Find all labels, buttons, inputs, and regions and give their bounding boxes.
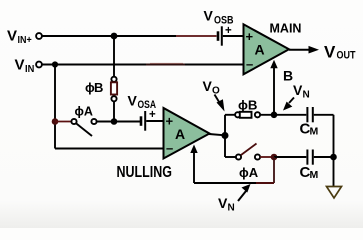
svg-text:V: V (203, 78, 213, 94)
svg-text:ϕB: ϕB (238, 99, 258, 113)
svg-text:V: V (7, 28, 17, 45)
svg-text:M: M (310, 126, 319, 138)
wire junction to cap CM bottom (274, 156, 306, 158)
wire VIN+ to battery VOSB (43, 35, 177, 37)
battery VOSB (218, 26, 244, 45)
svg-text:V: V (293, 82, 303, 98)
svg-text:V: V (15, 57, 25, 74)
wire VIN dark tint segment (146, 64, 185, 66)
svg-text:N: N (303, 90, 310, 101)
svg-text:B: B (283, 68, 293, 84)
wire to phiB switch mid (225, 114, 235, 116)
svg-text:OUT: OUT (337, 50, 356, 62)
node junction dark red bottom (271, 154, 278, 161)
wire nulling minus input (55, 148, 164, 150)
wire dark red to switch (55, 121, 72, 123)
arrow VN bottom pointer (238, 184, 251, 201)
node nulling output junction (222, 132, 229, 139)
node junction dark red left (52, 118, 59, 125)
wire phiA bottom to junction (260, 156, 272, 158)
svg-text:IN+: IN+ (18, 34, 32, 46)
wire phiB switch down to phiA line (113, 101, 115, 121)
op-amp NULLING (164, 108, 210, 159)
node junction below phiB (111, 118, 118, 125)
arrow VN top pointer (283, 98, 294, 111)
svg-text:IN: IN (25, 63, 34, 75)
wire phiA to battery VOSA (97, 121, 140, 123)
wire dark-red segment before VOSB (176, 35, 217, 37)
ground (327, 187, 342, 199)
svg-text:N: N (228, 203, 235, 214)
svg-text:A: A (175, 126, 185, 142)
svg-text:MAIN: MAIN (270, 22, 302, 36)
arrow VN rail up to nulling (190, 145, 197, 184)
switch phiB mid horizontal (235, 112, 260, 118)
node junction on VIN line (52, 61, 58, 67)
wire nulling out down to phiA bottom (225, 156, 236, 158)
capacitor CM bottom (307, 150, 312, 165)
wire junction down to phiB switch (113, 36, 115, 77)
svg-text:M: M (310, 169, 319, 181)
wire cap bottom to right rail (314, 156, 334, 158)
svg-text:ϕA: ϕA (239, 165, 259, 180)
arrow B up to main amp (270, 60, 277, 115)
wire phiB mid to cap CM top (260, 114, 306, 116)
svg-text:ϕA: ϕA (75, 105, 94, 119)
wire VN rail dark red part (256, 182, 274, 184)
op-amp U1 MAIN (244, 24, 290, 74)
svg-text:V: V (218, 195, 228, 211)
svg-text:–: – (246, 56, 253, 71)
wire VN rail horizontal (194, 182, 274, 184)
capacitor CM top (307, 107, 312, 122)
svg-text:V: V (324, 42, 336, 61)
svg-text:B: B (94, 80, 103, 95)
wire VIN to main minus input (43, 64, 244, 66)
wire cap top to right rail (314, 114, 334, 116)
node VIN terminal (36, 62, 42, 68)
svg-text:+: + (166, 114, 174, 129)
svg-text:+: + (149, 109, 156, 121)
svg-text:V: V (128, 93, 138, 109)
wire right rail down (333, 115, 335, 187)
svg-text:+: + (225, 25, 232, 37)
svg-text:–: – (166, 141, 173, 156)
node VIN+ terminal (36, 33, 42, 39)
svg-text:+: + (246, 29, 254, 44)
node junction B (271, 112, 278, 119)
svg-text:O: O (212, 86, 220, 97)
wire nulling output (209, 134, 225, 135)
node junction on VIN+ line (111, 33, 118, 40)
node junction right rail (330, 154, 337, 161)
wire VOUT arrow (289, 46, 319, 54)
svg-text:A: A (255, 42, 265, 58)
switch phiA bottom (236, 144, 260, 160)
wire junction down left rail (54, 65, 56, 149)
switch phiA left (71, 119, 96, 136)
battery VOSA (141, 111, 164, 131)
wire VN feedback down (273, 157, 275, 183)
switch phiB vertical (111, 77, 117, 102)
arrow VO pointer (215, 95, 225, 112)
svg-text:V: V (204, 8, 214, 24)
wire vertical at nulling output (224, 115, 226, 157)
svg-text:NULLING: NULLING (117, 164, 173, 181)
